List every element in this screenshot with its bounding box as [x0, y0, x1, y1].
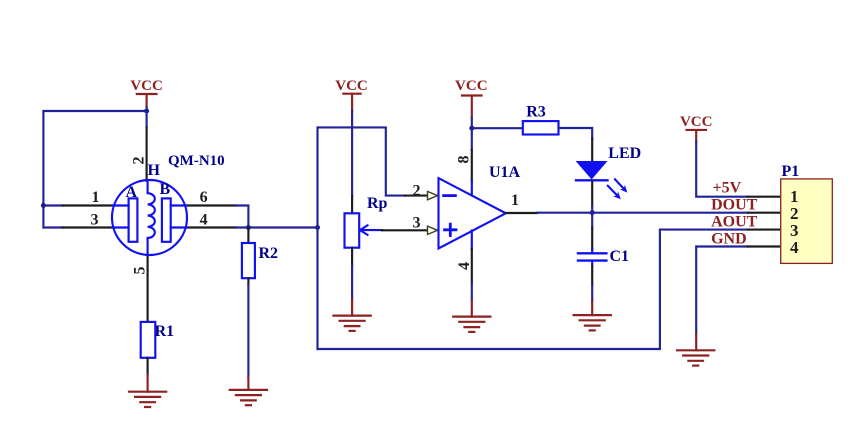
ground (GND net) [677, 350, 714, 365]
svg-text:2: 2 [413, 182, 421, 199]
svg-text:6: 6 [200, 189, 208, 206]
power symbol VCC (sensor bridge) [130, 78, 163, 111]
svg-text:5: 5 [132, 267, 149, 275]
svg-text:B: B [160, 181, 171, 198]
Rp wiper arrow [360, 225, 382, 234]
svg-text:GND: GND [711, 231, 747, 248]
LED cathode stub [591, 182, 593, 206]
svg-text:2: 2 [131, 157, 148, 165]
op-amp output pin 1 [506, 212, 537, 214]
sensor internal stubs [113, 206, 187, 228]
junction node pin1 branch [41, 203, 46, 208]
svg-text:4: 4 [456, 262, 473, 270]
pin marker (pin 2) [428, 191, 438, 199]
svg-text:C1: C1 [610, 248, 630, 265]
op-amp pin 3 stub [382, 229, 428, 231]
pin 2 stub of QM-N10 (heater top) [146, 111, 148, 127]
junction dot at VCC stem [144, 109, 149, 114]
op-amp pin 2 stub [405, 195, 428, 197]
LED cathode bar [576, 179, 608, 181]
power symbol VCC (Rp) [335, 78, 368, 111]
wire R1 to ground [147, 358, 149, 375]
wire output to DOUT [537, 212, 748, 214]
wire middle loop (sensor output net) [318, 127, 405, 349]
power symbol VCC (connector) [680, 114, 713, 142]
svg-text:H: H [148, 162, 161, 179]
wire Rp bottom to ground [351, 248, 353, 265]
svg-text:1: 1 [92, 189, 100, 206]
ground (R1) [129, 392, 166, 407]
power symbol VCC (op-amp) [455, 78, 488, 118]
svg-text:AOUT: AOUT [711, 214, 758, 231]
svg-text:R2: R2 [259, 245, 279, 262]
LED triangle [577, 162, 606, 179]
svg-text:R3: R3 [526, 104, 546, 121]
svg-text:U1A: U1A [489, 164, 521, 181]
ground (C1) [574, 315, 611, 330]
pin 4 stub of QM-N10 [187, 226, 236, 228]
svg-text:1: 1 [511, 192, 519, 209]
wire VCC to Rp [351, 111, 353, 196]
sensor electrode plate B [162, 198, 171, 241]
wire VCC net left loop [43, 111, 146, 228]
svg-text:VCC: VCC [680, 114, 713, 130]
wire pin4 net to middle section [236, 226, 318, 228]
ground (Rp) [334, 316, 371, 331]
junction dot at left vertical [315, 225, 320, 230]
sensor electrode plate A [129, 198, 138, 241]
ground (op-amp) [453, 317, 490, 332]
svg-text:QM-N10: QM-N10 [168, 153, 225, 169]
wire GND [696, 247, 748, 334]
op-amp U1A triangle [439, 178, 506, 248]
wire C1 to ground [591, 266, 593, 285]
svg-text:VCC: VCC [335, 78, 368, 94]
connector P1 pin stubs [748, 196, 781, 198]
wire bottom run to AOUT [318, 230, 748, 349]
svg-text:P1: P1 [782, 163, 800, 180]
junction dot output node [590, 210, 595, 215]
potentiometer Rp [345, 213, 360, 247]
resistor R2 [247, 228, 249, 244]
svg-text:4: 4 [790, 238, 799, 257]
ground (R2) [230, 390, 267, 405]
svg-text:3: 3 [413, 215, 421, 232]
pin 6 stub of QM-N10 [187, 204, 236, 206]
svg-text:8: 8 [456, 156, 473, 164]
svg-text:+5V: +5V [713, 180, 742, 197]
connector P1 body [781, 179, 833, 264]
svg-text:VCC: VCC [130, 78, 163, 94]
svg-text:Rp: Rp [367, 195, 388, 212]
svg-text:R1: R1 [155, 323, 175, 340]
op-amp pin 8 [471, 128, 473, 150]
svg-text:4: 4 [200, 212, 208, 229]
LED anode stub [591, 139, 593, 162]
junction dot VCC op-amp [469, 126, 474, 131]
wire VCC to R3 [472, 127, 523, 129]
sensor QM-N10 circle body [112, 180, 187, 255]
svg-text:DOUT: DOUT [711, 197, 758, 214]
wire R2 to ground [247, 278, 249, 285]
sensor heater coil [148, 181, 155, 255]
pin 5 stub of QM-N10 (heater bottom) [147, 255, 149, 322]
op-amp minus sign [444, 194, 456, 197]
svg-text:LED: LED [608, 145, 641, 162]
LED emission arrows [615, 179, 623, 188]
capacitor C1 [591, 213, 593, 228]
wire R3 to LED [559, 128, 593, 139]
wire +5V [696, 142, 748, 197]
svg-text:A: A [126, 184, 138, 201]
svg-text:3: 3 [91, 212, 99, 229]
op-amp plus sign [445, 224, 456, 235]
wire pin6 to R2 node [236, 206, 248, 228]
op-amp pin 4 [471, 231, 473, 250]
junction dot R2 top [246, 225, 251, 230]
pin 3 stub of QM-N10 [63, 226, 113, 228]
pin marker (pin 3) [428, 226, 438, 234]
resistor R1 [147, 321, 149, 323]
svg-text:VCC: VCC [455, 78, 488, 94]
resistor R3 [523, 121, 559, 134]
pin 1 stub of QM-N10 [63, 204, 113, 206]
